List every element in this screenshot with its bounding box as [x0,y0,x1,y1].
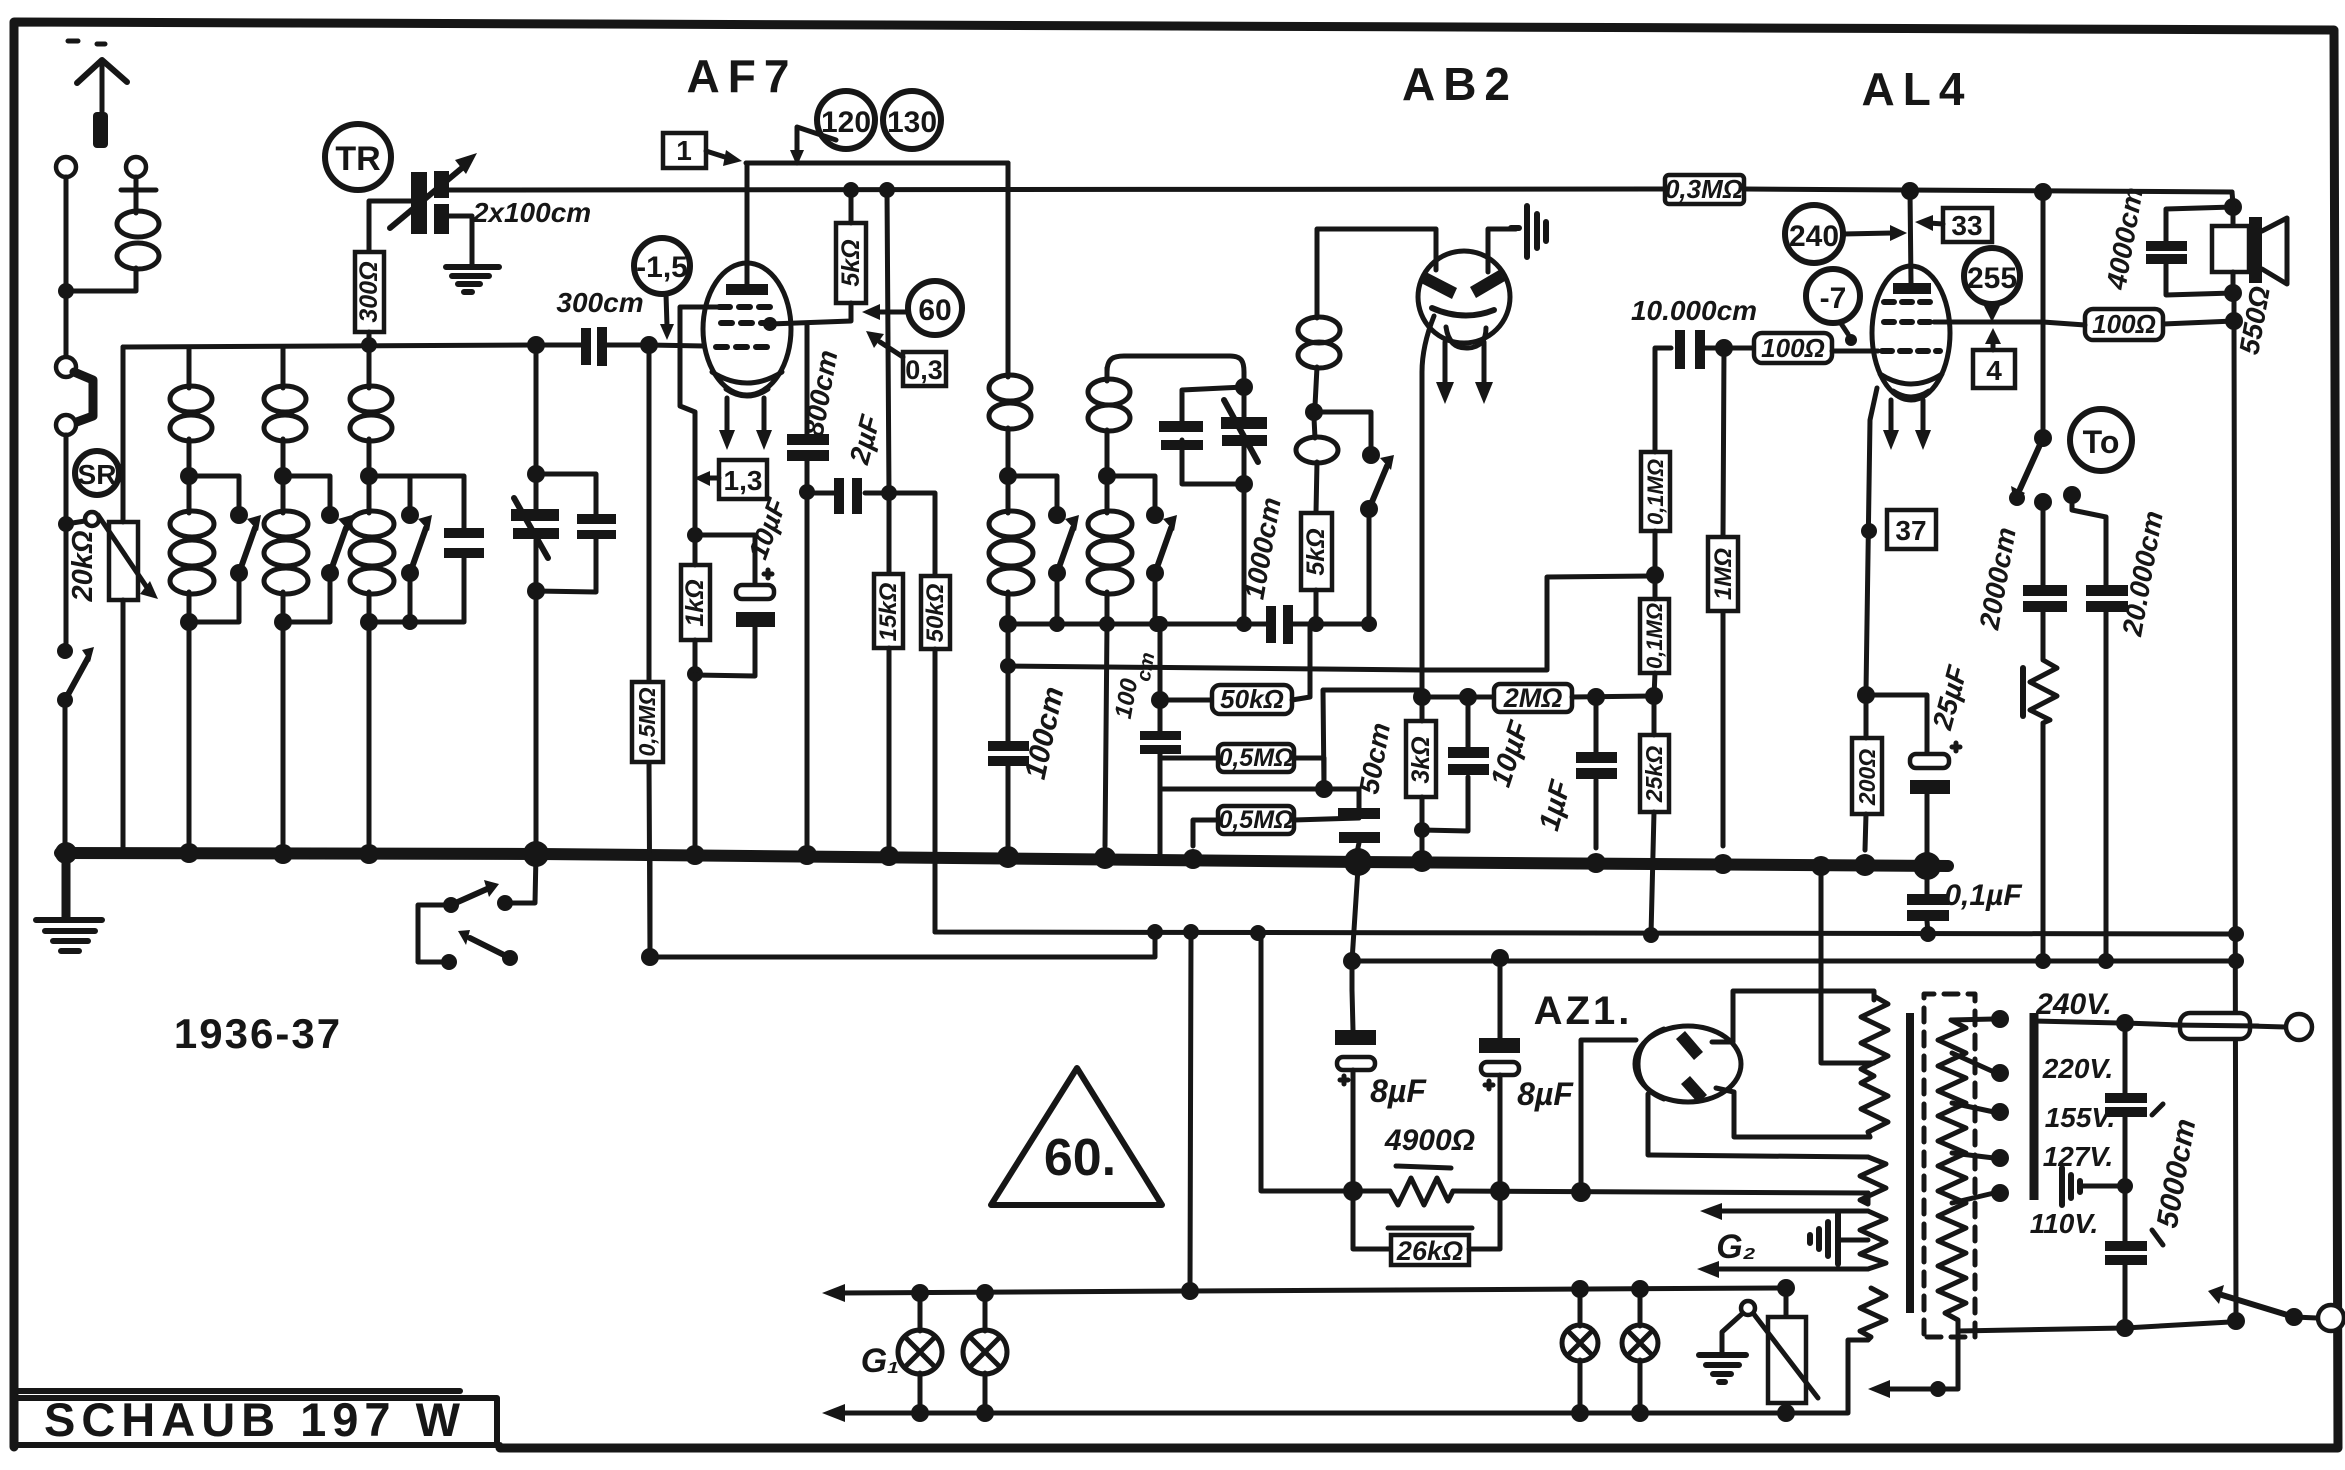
svg-text:1: 1 [676,135,692,166]
resistor 5k screen feed [770,182,866,324]
transformer secondary winding [1938,1020,2125,1331]
return line B [935,862,2236,934]
svg-text:15kΩ: 15kΩ [875,582,902,641]
svg-text:155V.: 155V. [2045,1102,2116,1133]
svg-text:AB2: AB2 [1402,58,1518,110]
switch group 3 [369,476,432,630]
anode supply line y163 [746,161,1008,166]
svg-text:0,1µF: 0,1µF [1944,879,2022,912]
capacitor 8uF first [1335,990,1427,1185]
parallel trimmer section 1 [536,474,616,592]
svg-text:AL4: AL4 [1862,63,1973,115]
resistor 0,5M avc 1 [1160,744,1324,789]
coil group 4 primary [989,360,1033,633]
selector ground [2062,1168,2133,1205]
wire trimmer left to 300ohm [369,201,413,252]
tube AL4 [1872,182,1950,400]
resistor 100 grid AL4 [1724,333,1878,363]
HT center tap [1821,868,1874,1063]
title box SCHAUB 197 W [16,1391,500,1446]
AB2 anode right lead to ground [1488,229,1516,272]
coil group 3 : band coil [350,347,394,852]
jumper terminal lower [56,415,76,435]
coil group 2 : band coil [264,347,308,852]
resistor 0,5M grid leak [632,336,663,957]
svg-text:0,5MΩ: 0,5MΩ [634,687,660,756]
capacitor 20.000cm [2072,495,2169,961]
bus junction blobs [55,842,77,864]
lamp 4 [1622,1289,1658,1413]
heater drop from return line [1190,932,1191,1291]
svg-text:0,5MΩ: 0,5MΩ [1218,744,1293,772]
capacitor 800cm screen [787,324,843,852]
svg-text:33: 33 [1951,210,1982,241]
transformer winding AZ1 filament [1860,1157,1886,1204]
tuning gang section 1 [511,345,559,853]
ground at trimmer [446,267,499,292]
svg-text:0,5MΩ: 0,5MΩ [1218,806,1293,834]
svg-text:300cm: 300cm [556,287,643,318]
resistor 26k [1353,1191,1500,1266]
secondary tap 127V [1952,1153,1994,1158]
svg-text:10.000cm: 10.000cm [1631,295,1757,326]
wire jumper to wiper node [64,435,69,645]
svg-text:60.: 60. [1044,1129,1116,1187]
vertical to 15k [881,485,897,501]
transformer primary winding HT [1861,996,1888,1137]
wire rheostat bottom to bus [121,600,126,853]
svg-text:5kΩ: 5kΩ [837,239,865,286]
switch group 2 [283,476,352,622]
tone resistor zigzag [2023,655,2057,961]
svg-text:120: 120 [821,106,871,139]
circle 240 annotation [1785,205,1907,263]
svg-text:50kΩ: 50kΩ [922,583,949,642]
svg-text:AZ1.: AZ1. [1534,989,1633,1033]
return line A [641,948,659,966]
fixed cap group 3 [410,476,484,622]
capacitor 10.000cm [1631,295,1757,369]
circle 120 annotation [790,91,875,166]
svg-text:8µF: 8µF [1517,1076,1574,1112]
svg-text:127V.: 127V. [2043,1141,2114,1172]
speaker [2212,192,2287,302]
svg-text:130: 130 [887,106,937,139]
line y666 avc [1000,658,1016,674]
ht plus rail [1261,935,1868,1193]
trimmer capacitor 2x100cm [390,153,477,234]
lamp 3 [1562,1289,1598,1413]
circle -7 annotation [1806,269,1860,346]
line y789 [1160,787,1359,792]
svg-text:G₂: G₂ [1716,1228,1755,1266]
svg-text:1936-37: 1936-37 [174,1010,342,1057]
transformer secondary bottom arrow tap [1868,1331,1958,1398]
svg-text:3kΩ: 3kΩ [1407,736,1435,783]
svg-text:TR: TR [335,140,380,178]
svg-text:To: To [2083,424,2120,460]
capacitor 1000cm series [1238,495,1293,644]
link cathode to avc [1323,690,1422,789]
svg-text:0,3: 0,3 [905,355,943,385]
svg-text:25kΩ: 25kΩ [1641,746,1667,803]
ground g2 tap [1810,1214,1868,1264]
AF7 cathode arrows [719,398,772,450]
secondary tap 240V [1951,1019,1994,1020]
g2 arrow top [1718,1209,1868,1214]
To switch [2009,322,2081,511]
antenna terminal left [56,157,76,177]
secondary tap 110V [1952,1193,1994,1203]
svg-text:220V.: 220V. [2042,1053,2114,1084]
antenna terminal right [126,157,146,177]
long grid line y345 [123,345,704,347]
AZ1 heater lead left [1581,1040,1636,1192]
svg-text:100Ω: 100Ω [1761,333,1825,363]
svg-text:255: 255 [1967,262,2017,295]
resistor 200 bias [1852,695,1882,850]
resistor 25k [1640,696,1669,935]
svg-text:SCHAUB 197 W: SCHAUB 197 W [44,1393,466,1446]
AB2 cathode arrows [1436,342,1493,404]
svg-text:50kΩ: 50kΩ [1220,684,1284,714]
capacitor 4000cm [2100,185,2233,295]
ht return line [1352,868,1358,990]
capacitor 5000cm upper [2105,1023,2147,1241]
warning triangle 60. [991,1068,1162,1205]
AF7 g3 wire to cathode line [680,307,719,528]
svg-text:300Ω: 300Ω [355,261,383,322]
ground main left [36,858,102,951]
circle 60 annotation [862,281,962,335]
transformer secondary dashed box [1924,994,1975,1337]
resistor 50k horizontal [1151,624,1310,714]
switch group 4 [1008,476,1079,632]
resistor 20k [67,522,138,603]
svg-text:1kΩ: 1kΩ [681,579,709,626]
svg-text:4: 4 [1986,355,2002,386]
svg-text:240: 240 [1789,220,1839,253]
svg-text:8µF: 8µF [1370,1073,1427,1109]
wire down to jumper [64,299,69,357]
wiper node dot [58,516,74,532]
ground urdox [1699,1313,1746,1382]
AB2 cathode line [1422,316,1434,691]
resistor 2M [1422,683,1663,713]
transformer winding g2 bias [1860,1211,1886,1269]
svg-text:20kΩ: 20kΩ [67,530,99,602]
transformer winding heater [1860,1288,1886,1340]
mains line to fuse [2034,1021,2119,1023]
capacitor 100cm detector 1 [988,624,1071,848]
svg-text:AF7: AF7 [687,50,798,102]
jumper terminal upper [56,357,76,377]
resistor 0,3M on supply line [1665,174,1744,204]
junction grid line [527,336,545,354]
To circle label [2070,409,2132,471]
resistor 1M [1708,348,1738,846]
svg-text:2x100cm: 2x100cm [472,197,591,228]
voltage selector bar [2030,1013,2039,1200]
capacitor 2000cm [1973,502,2067,655]
TR circle label [325,124,391,190]
fixed cap 300cm on grid line [556,287,643,366]
tube AF7 [703,163,791,396]
resistor 0,5M avc 2 [1193,806,1359,846]
svg-text:4900Ω: 4900Ω [1384,1124,1475,1157]
capacitor 0,1uF [1907,868,2022,942]
box 0,3 annotation [866,331,946,386]
box 37 annotation [1861,510,1936,549]
svg-text:0,3MΩ: 0,3MΩ [1665,174,1743,204]
resistor 100 output [2043,293,2243,340]
capacitor 5000cm lower [2105,1241,2147,1337]
circle 130 annotation [883,91,941,149]
capacitor 10uF cathode bypass [695,493,793,676]
box 33 annotation [1915,208,1992,242]
resistor 15k [874,574,903,852]
svg-text:1,3: 1,3 [724,465,763,496]
mains switch [2208,1285,2317,1326]
secondary tap 220V [1952,1053,1994,1072]
svg-text:60: 60 [918,294,951,327]
SR circle label [75,451,119,495]
padder variable cap [1221,400,1267,632]
capacitor 10uF af [1422,697,1536,831]
common line y624 [1008,622,1371,627]
wire trimmer right to ground [449,216,472,266]
AL4 cathode arrows [1883,400,1931,450]
IF transformer 1 primary riser [1006,163,1011,360]
wire y345 to rheostat top [121,347,126,522]
rheostat wiper arm [66,521,85,524]
AZ1 anode lead 1 [1712,991,1874,1042]
mains terminal top [2286,1014,2312,1040]
AL4 g2 riser [1934,192,2043,322]
svg-text:-1,5: -1,5 [636,251,688,284]
box 1,3 annotation [694,460,767,499]
svg-text:2MΩ: 2MΩ [1503,683,1563,713]
box 1 annotation [663,133,742,168]
tube AB2 [1418,251,1510,348]
resistor 0,1M 2 [1640,566,1669,696]
fuse [2125,1013,2285,1039]
resistor 5k oscillator [1301,513,1332,632]
lamp 2 [963,1293,1007,1413]
resistor 0,1M 1 [1641,348,1671,575]
g2 arrow bottom [1715,1267,1868,1272]
wire 300ohm to y345 [367,332,372,345]
svg-text:37: 37 [1895,515,1926,546]
heater rail bottom [838,1340,1868,1413]
mains bottom line [2125,1322,2230,1328]
AZ1 anode lead 2 [1716,1088,1870,1137]
heater rail top [838,1288,1786,1293]
jumper thick link [74,372,93,423]
oscillator switch [1314,412,1394,632]
AB2 anode left lead [1317,229,1436,270]
mains terminal bottom [2318,1305,2344,1331]
circle 255 annotation [1964,248,2020,322]
svg-text:-7: -7 [1820,282,1847,315]
capacitor 1uF [1533,697,1617,848]
svg-text:5kΩ: 5kΩ [1302,528,1330,575]
lamp 1 [898,1293,942,1413]
wire left terminal down [64,177,69,288]
svg-text:200Ω: 200Ω [1854,749,1880,806]
resistor 3k [1406,697,1436,850]
box 4 annotation [1973,328,2015,388]
capacitor 50cm [1338,720,1396,862]
capacitor 2uF [807,411,886,514]
long line y190 from trimmer [449,189,2232,192]
svg-text:110V.: 110V. [2030,1208,2099,1239]
padder fixed cap [1159,378,1253,484]
long vertical to mains switch [2234,321,2236,1320]
transformer core [1906,1013,1914,1313]
switch group 5 [1107,476,1177,632]
coil group 5 secondary [1088,356,1244,846]
wire switch to bus [63,708,68,852]
tube AZ1 [1534,989,1741,1103]
antenna symbol [68,41,127,148]
switch group 1 [189,476,261,622]
capacitor 25uF [1866,662,1973,855]
ground AB2 [1511,206,1546,257]
svg-text:1MΩ: 1MΩ [1710,548,1737,600]
coil group 1 : band coil [170,347,214,852]
resistor 50k [889,493,950,932]
resistor 4900 zigzag [1384,1124,1475,1205]
urdox regulator [1741,1288,1818,1413]
switch in antenna lead [57,643,94,708]
circle -1,5 annotation [634,238,690,340]
resistor 300ohm [355,252,384,332]
capacitor 8uF second [1479,958,1574,1185]
capacitor 100cm detector 2 [1110,616,1181,858]
svg-text:26kΩ: 26kΩ [1396,1236,1463,1266]
antenna coupling coil [66,177,159,291]
wave switch below bus [418,854,536,970]
svg-text:0,1MΩ: 0,1MΩ [1642,603,1667,669]
AL4 cathode line down [1866,388,1877,691]
chassis bus [60,853,1948,866]
resistor 1k cathode [681,542,710,852]
svg-text:G₁: G₁ [861,1342,899,1380]
svg-text:0,1MΩ: 0,1MΩ [1643,459,1668,525]
svg-text:SR: SR [78,459,117,490]
secondary tap 155V [1952,1103,1994,1112]
svg-text:100Ω: 100Ω [2092,309,2156,339]
oscillator coil AB2 [1296,230,1340,513]
node junction [58,283,74,299]
svg-text:240V.: 240V. [2035,988,2112,1021]
AZ1 heater lead bottom [1648,1094,1868,1157]
